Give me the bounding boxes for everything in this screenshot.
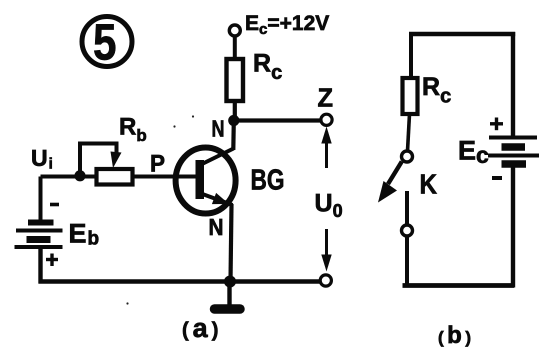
svg-text:N: N [212,116,225,142]
svg-text:BG: BG [251,165,285,197]
svg-text:Ui: Ui [31,145,53,173]
svg-text:U0: U0 [315,190,343,222]
svg-text:P: P [150,151,165,178]
svg-text:Ec: Ec [458,136,489,169]
svg-text:N: N [209,214,224,240]
svg-text:Eb: Eb [69,219,100,250]
svg-text:Rb: Rb [119,114,147,146]
svg-text:(b): (b) [438,322,475,349]
svg-text:K: K [420,169,438,200]
svg-text:Ec=+12V: Ec=+12V [245,12,329,38]
svg-text:Rc: Rc [422,73,451,108]
svg-text:(a): (a) [182,313,222,343]
svg-text:Z: Z [318,83,334,113]
svg-text:5: 5 [93,14,117,71]
svg-text:Rc: Rc [253,50,282,85]
